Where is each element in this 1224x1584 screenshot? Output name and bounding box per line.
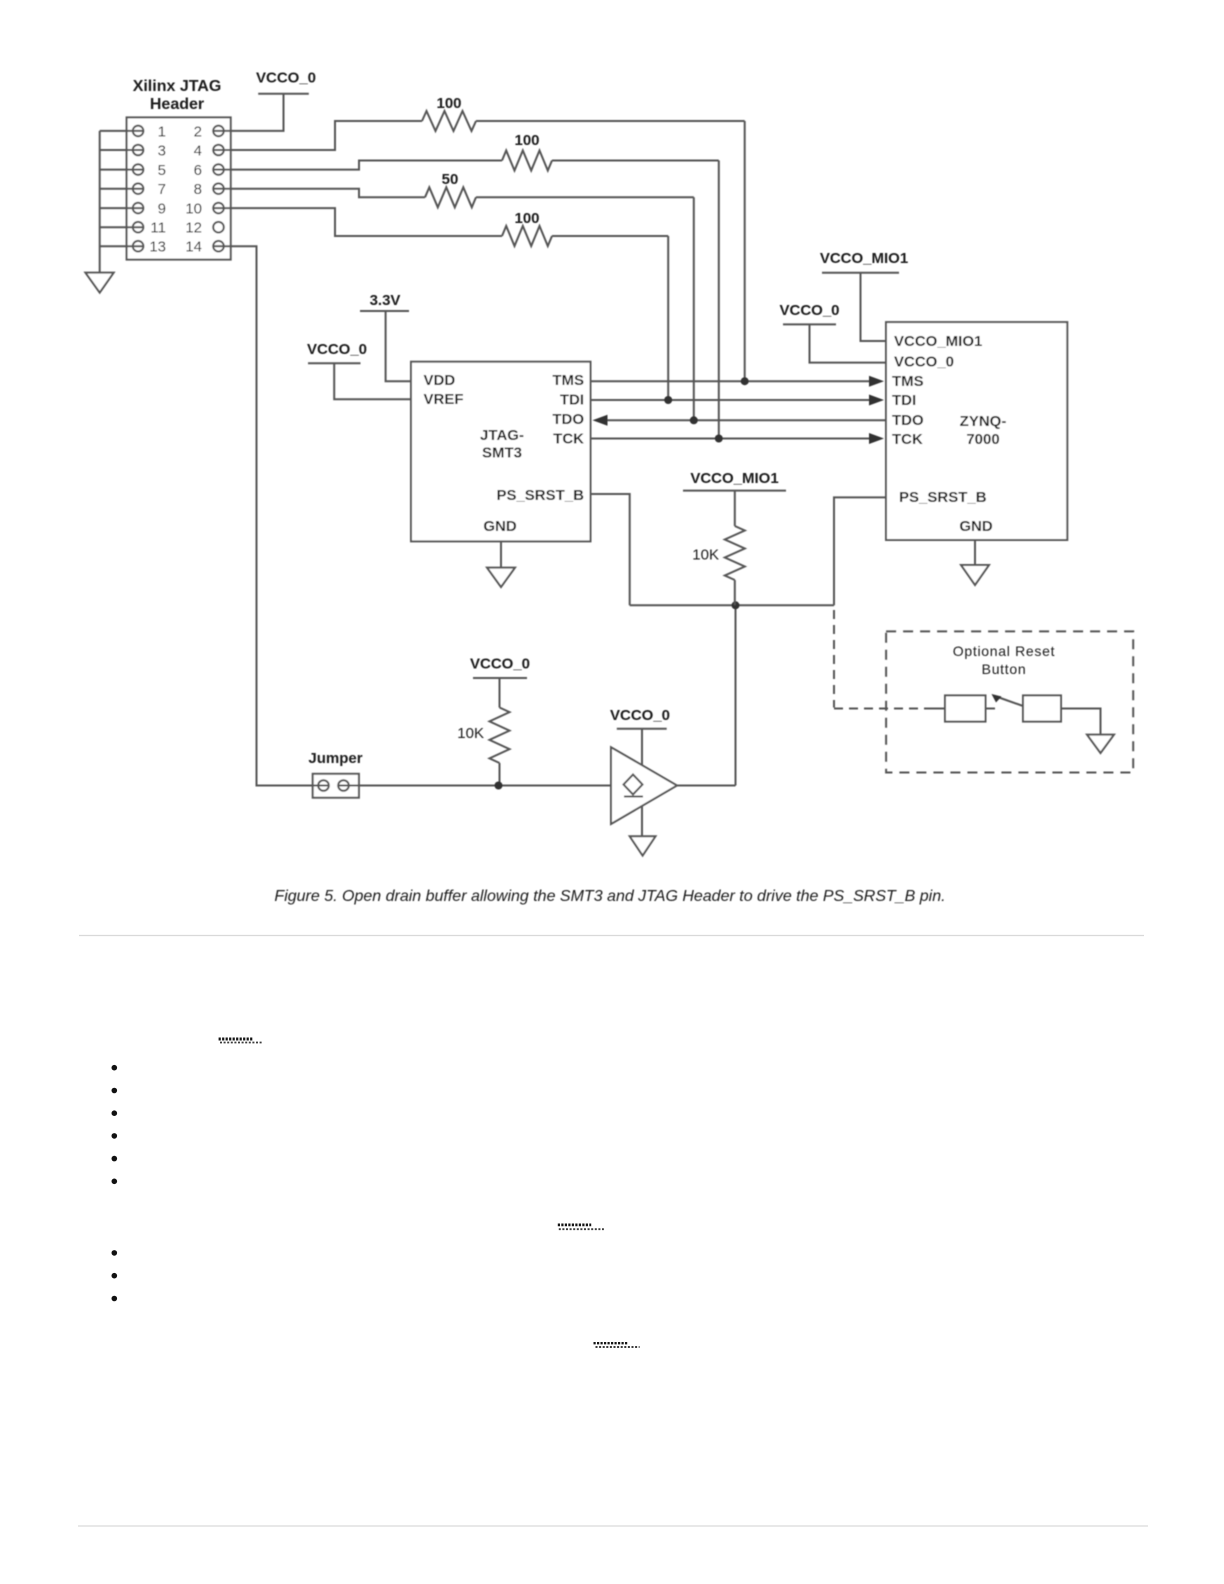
svg-text:Xilinx JTAG: Xilinx JTAG — [133, 78, 222, 95]
svg-text:TDO: TDO — [552, 411, 584, 428]
svg-text:TMS: TMS — [892, 373, 924, 390]
svg-text:VCCO_0: VCCO_0 — [256, 70, 316, 87]
svg-text:9: 9 — [158, 201, 166, 218]
svg-text:5: 5 — [158, 162, 166, 179]
svg-text:GND: GND — [483, 518, 517, 535]
svg-text:JTAG-: JTAG- — [480, 427, 524, 444]
svg-text:100: 100 — [436, 95, 461, 112]
svg-text:Button: Button — [982, 661, 1027, 677]
svg-text:VCCO_0: VCCO_0 — [610, 707, 670, 724]
svg-text:TDO: TDO — [892, 412, 924, 429]
svg-text:TDI: TDI — [560, 392, 584, 409]
svg-text:10K: 10K — [692, 547, 719, 564]
svg-text:Jumper: Jumper — [308, 750, 362, 767]
svg-text:11: 11 — [150, 220, 166, 237]
svg-text:10: 10 — [185, 201, 202, 218]
svg-text:VDD: VDD — [424, 372, 456, 389]
svg-text:GND: GND — [959, 518, 993, 535]
svg-text:12: 12 — [185, 220, 202, 237]
svg-text:Optional Reset: Optional Reset — [953, 643, 1055, 659]
svg-text:VCCO_MIO1: VCCO_MIO1 — [820, 250, 908, 267]
svg-text:14: 14 — [185, 239, 202, 256]
svg-text:10K: 10K — [457, 725, 484, 742]
svg-text:4: 4 — [194, 143, 202, 160]
svg-text:3.3V: 3.3V — [370, 292, 401, 309]
svg-text:TDI: TDI — [892, 392, 916, 409]
svg-text:Header: Header — [150, 96, 204, 113]
svg-text:50: 50 — [442, 171, 459, 188]
svg-text:VCCO_MIO1: VCCO_MIO1 — [894, 333, 982, 350]
svg-text:7: 7 — [158, 181, 166, 198]
svg-text:PS_SRST_B: PS_SRST_B — [496, 487, 584, 504]
svg-text:7000: 7000 — [966, 431, 999, 448]
svg-text:2: 2 — [194, 123, 202, 140]
svg-text:VCCO_0: VCCO_0 — [894, 354, 954, 371]
svg-text:13: 13 — [149, 239, 166, 256]
svg-text:VREF: VREF — [424, 391, 464, 408]
svg-text:TCK: TCK — [553, 431, 584, 448]
svg-text:6: 6 — [194, 162, 202, 179]
svg-text:VCCO_0: VCCO_0 — [470, 656, 530, 673]
svg-text:100: 100 — [514, 132, 539, 149]
svg-text:VCCO_MIO1: VCCO_MIO1 — [690, 470, 778, 487]
svg-text:VCCO_0: VCCO_0 — [307, 341, 367, 358]
svg-text:8: 8 — [194, 181, 202, 198]
svg-text:3: 3 — [158, 143, 166, 160]
svg-text:SMT3: SMT3 — [482, 445, 522, 462]
svg-text:ZYNQ-: ZYNQ- — [960, 413, 1007, 430]
svg-text:PS_SRST_B: PS_SRST_B — [899, 489, 987, 506]
svg-text:Figure 5. Open drain buffer al: Figure 5. Open drain buffer allowing the… — [274, 888, 945, 905]
svg-text:VCCO_0: VCCO_0 — [779, 302, 839, 319]
svg-text:TCK: TCK — [892, 431, 923, 448]
svg-text:TMS: TMS — [552, 372, 584, 389]
svg-text:100: 100 — [514, 210, 539, 227]
svg-text:1: 1 — [158, 123, 166, 140]
